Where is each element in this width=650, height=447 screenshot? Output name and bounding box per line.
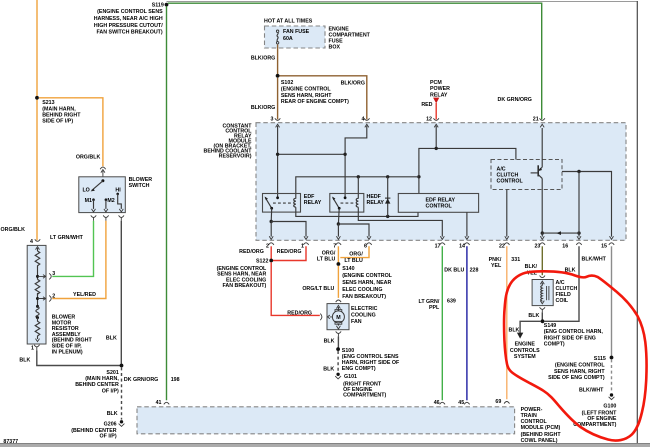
splice S122 — [217, 259, 274, 289]
svg-text:EDF: EDF — [304, 194, 315, 200]
wire ORG/LT BLU pin 6 to S140 — [340, 246, 369, 257]
EDF relay control box — [398, 194, 478, 213]
svg-text:17: 17 — [435, 244, 441, 250]
svg-text:(MAIN HARN,: (MAIN HARN, — [42, 106, 76, 112]
PCM pin 45 — [458, 400, 469, 406]
electric cooling fan label — [351, 306, 378, 325]
fan bottom connector — [336, 331, 341, 336]
svg-text:639: 639 — [447, 299, 456, 305]
ENGINE CONTROLS SYSTEM reference — [510, 342, 540, 361]
resistor pin 1 connector — [31, 345, 39, 352]
wire BLK fan to S100 — [337, 336, 339, 349]
svg-text:SENS HARN, NEAR: SENS HARN, NEAR — [342, 280, 391, 286]
svg-text:(ENGINE CONTROL: (ENGINE CONTROL — [342, 273, 392, 279]
svg-text:87377: 87377 — [3, 439, 18, 445]
svg-text:(ENGINE CONTROL: (ENGINE CONTROL — [281, 86, 331, 92]
splice S201 — [75, 364, 123, 395]
svg-text:FAN: FAN — [351, 319, 362, 325]
wire ORG/BLK left vertical from top — [36, 0, 38, 240]
ground G100 — [573, 393, 617, 428]
electric cooling fan motor M — [320, 304, 349, 330]
svg-text:S213: S213 — [42, 100, 54, 106]
wire ORG/LT BLU pin 7 to S140 — [337, 246, 339, 264]
svg-text:PCM: PCM — [430, 80, 442, 86]
wire BLK/ORG S102 to pin 3 — [277, 78, 279, 120]
svg-text:LT GRN/: LT GRN/ — [419, 299, 440, 305]
svg-text:BLK/WHT: BLK/WHT — [582, 257, 607, 263]
svg-text:6: 6 — [364, 244, 367, 250]
svg-text:TRAIN: TRAIN — [521, 413, 537, 419]
svg-text:BEHIND CENTER: BEHIND CENTER — [75, 382, 119, 388]
svg-text:(ENG CONTROL HARN,: (ENG CONTROL HARN, — [544, 329, 604, 335]
svg-text:RESERVOIR): RESERVOIR) — [219, 153, 252, 159]
label ORG/ LT BLU pin 6 — [344, 251, 363, 263]
svg-text:ELEC COOLING: ELEC COOLING — [342, 287, 382, 293]
svg-text:MODULE (PCM): MODULE (PCM) — [521, 425, 561, 431]
PCM label — [521, 407, 562, 444]
svg-text:LT BLU: LT BLU — [344, 258, 363, 264]
svg-text:COIL: COIL — [556, 298, 569, 304]
blower switch output connectors — [91, 215, 124, 220]
label DK GRN/ORG with circuit 198 — [124, 377, 180, 383]
wire BLK S201 to G206 (dashed) — [121, 367, 123, 419]
internal wire pin 3 to EDF relay — [277, 126, 279, 198]
pin 3 connector — [271, 116, 281, 127]
svg-text:198: 198 — [171, 377, 180, 383]
page top border line — [167, 1, 638, 3]
A/C clutch control output to pin 22 — [506, 190, 508, 237]
svg-text:OF I/P): OF I/P) — [100, 433, 117, 439]
CCRM bottom pin numbers — [266, 244, 607, 250]
svg-text:COMPARTMENT): COMPARTMENT) — [343, 392, 386, 398]
A/C clutch control box — [491, 160, 562, 190]
svg-text:23: 23 — [534, 244, 540, 250]
pin 4 connector — [362, 116, 370, 127]
wire BLK/ORG fuse to S102 — [277, 45, 279, 76]
blower switch connector — [100, 167, 105, 181]
svg-text:ORG/: ORG/ — [322, 250, 336, 256]
svg-text:IN PLENUM): IN PLENUM) — [52, 349, 83, 355]
CCRM bottom pin sockets — [269, 243, 615, 245]
svg-text:BLK/ORG: BLK/ORG — [251, 55, 275, 61]
wire DK GRN/ORG S119 down to PCM pin 41 — [166, 6, 168, 400]
splice S102 — [276, 74, 349, 105]
svg-text:EDF RELAY: EDF RELAY — [426, 197, 456, 203]
svg-text:SIDE OF ENG COMPT): SIDE OF ENG COMPT) — [548, 375, 605, 381]
splice S149 — [541, 319, 604, 347]
svg-text:YEL/RED: YEL/RED — [73, 292, 96, 298]
splice S119 — [152, 3, 169, 9]
svg-text:OF I/P): OF I/P) — [102, 388, 119, 394]
svg-text:SIDE OF I/P): SIDE OF I/P) — [42, 119, 73, 125]
svg-text:M2: M2 — [107, 198, 114, 204]
svg-text:ORG/: ORG/ — [349, 251, 363, 257]
wire BLK resistor pin1 to S201 — [37, 350, 122, 365]
svg-text:HARNESS, NEAR A/C HIGH: HARNESS, NEAR A/C HIGH — [94, 16, 163, 22]
svg-text:BLOWER: BLOWER — [129, 177, 153, 183]
HEDF relay coil to pin 17 — [358, 207, 442, 236]
svg-text:M1: M1 — [85, 198, 92, 204]
wire BLK S100 to G101 (dashed) — [337, 351, 339, 372]
coil bottom connector — [540, 307, 545, 312]
page right border line — [636, 1, 638, 444]
svg-text:12: 12 — [426, 116, 432, 122]
svg-text:RED/ORG: RED/ORG — [277, 249, 302, 255]
wire LT GRN/WHT switch M1 to resistor pin 3 — [52, 221, 93, 277]
label ORG/ LT BLU pin 7 — [317, 250, 336, 262]
HEDF relay switch output to pins 7 and 6 — [337, 222, 340, 225]
svg-text:21: 21 — [533, 116, 539, 122]
svg-text:RIGHT SIDE OF ENG: RIGHT SIDE OF ENG — [544, 335, 596, 341]
svg-text:POWER: POWER — [430, 86, 450, 92]
svg-text:4: 4 — [362, 116, 365, 122]
svg-text:FAN SWITCH BREAKOUT): FAN SWITCH BREAKOUT) — [96, 30, 162, 36]
constant control relay module box — [256, 123, 626, 241]
label DK BLU circuit 228 — [444, 268, 478, 274]
svg-text:BLK: BLK — [19, 357, 30, 363]
wire BLK pin 16 to S149 — [544, 246, 579, 321]
engine compartment fuse box — [265, 26, 326, 48]
svg-text:69: 69 — [495, 399, 501, 405]
svg-text:60A: 60A — [283, 36, 293, 42]
svg-text:ELECTRIC: ELECTRIC — [351, 306, 378, 312]
wire DK GRN/ORG S119 to CCRM pin 21 — [168, 3, 542, 119]
svg-text:PNK/: PNK/ — [489, 257, 502, 263]
S119 harness note — [94, 9, 163, 35]
pin 21 connector — [533, 116, 545, 127]
svg-text:G101: G101 — [344, 374, 357, 380]
svg-text:45: 45 — [458, 400, 464, 406]
svg-text:3: 3 — [271, 116, 274, 122]
svg-text:DK GRN/ORG: DK GRN/ORG — [124, 377, 158, 383]
wire RED PCM power relay to pin 12 — [435, 103, 437, 119]
svg-text:CONTROL: CONTROL — [497, 179, 524, 185]
svg-text:DK BLU: DK BLU — [444, 268, 464, 274]
ground G101 — [335, 373, 386, 399]
svg-text:22: 22 — [499, 244, 505, 250]
svg-text:LO: LO — [82, 188, 89, 194]
CCRM label — [204, 123, 253, 159]
svg-text:RED/ORG: RED/ORG — [287, 311, 312, 317]
svg-text:14: 14 — [459, 244, 465, 250]
splice S115 — [548, 356, 613, 381]
transistor Q1 — [531, 128, 543, 233]
svg-text:HOT AT ALL TIMES: HOT AT ALL TIMES — [264, 18, 313, 24]
svg-text:G206: G206 — [104, 422, 117, 428]
wire LT GRN/PPL pin 17 to PCM 46 — [441, 246, 443, 400]
svg-text:BLK: BLK — [323, 366, 334, 372]
svg-text:COOLING: COOLING — [351, 313, 376, 319]
A/C clutch field coil connector top — [540, 276, 545, 278]
svg-text:2: 2 — [266, 244, 269, 250]
svg-text:16: 16 — [562, 244, 568, 250]
blower motor resistor connector pin 4 — [30, 239, 40, 245]
wire DK BLU pin 14 to PCM 45 — [466, 246, 468, 400]
svg-text:46: 46 — [434, 400, 440, 406]
svg-text:BLK: BLK — [528, 313, 539, 319]
splice S213 — [35, 96, 81, 125]
PCM pin 69 — [495, 399, 509, 405]
HEDF relay — [330, 194, 385, 225]
svg-text:DK GRN/ORG: DK GRN/ORG — [498, 97, 532, 103]
wire BLK S149 to engine controls system — [520, 321, 541, 333]
svg-text:ENG COMPT): ENG COMPT) — [342, 366, 376, 372]
junction rail pins 3-4 — [278, 153, 346, 155]
internal wire pin 4 to HEDF relay — [345, 126, 367, 198]
svg-text:ORG/BLK: ORG/BLK — [1, 227, 26, 233]
svg-text:41: 41 — [156, 400, 162, 406]
svg-text:BLK/ORG: BLK/ORG — [341, 80, 365, 86]
svg-text:HIGH PRESSURE CUTOUT/: HIGH PRESSURE CUTOUT/ — [94, 23, 163, 29]
svg-text:BLK/ORG: BLK/ORG — [251, 105, 275, 111]
red annotation circle — [504, 271, 647, 440]
svg-text:PPL: PPL — [429, 305, 440, 311]
svg-text:FAN BREAKOUT): FAN BREAKOUT) — [222, 283, 266, 289]
svg-text:M: M — [336, 315, 341, 321]
svg-text:RELAY: RELAY — [304, 200, 322, 206]
powertrain control module box — [137, 407, 515, 434]
label BLK/ YEL — [525, 264, 538, 276]
svg-text:7: 7 — [333, 244, 336, 250]
wire ORG/BLK S213 to blower switch — [39, 98, 103, 166]
svg-text:SWITCH: SWITCH — [129, 183, 150, 189]
svg-text:ENGINE: ENGINE — [515, 342, 536, 348]
wire ORG/LT BLU S140 to cooling fan — [337, 266, 339, 298]
wire RED/ORG S122 to cooling fan — [271, 262, 320, 315]
svg-text:(ENGINE CONTROL SENS: (ENGINE CONTROL SENS — [97, 9, 163, 15]
splice S140 — [337, 262, 393, 300]
fuse FAN FUSE 60A — [276, 29, 309, 44]
svg-text:RELAY: RELAY — [430, 92, 448, 98]
svg-text:RELAY: RELAY — [367, 200, 385, 206]
fuse box label — [329, 27, 371, 51]
svg-text:S119: S119 — [152, 3, 164, 9]
svg-text:(ENG CONTROL SENS: (ENG CONTROL SENS — [342, 354, 399, 360]
diode D1 — [385, 177, 390, 217]
blower switch BLOWER SWITCH — [79, 177, 153, 213]
CCRM bottom pin arrows — [269, 236, 613, 239]
svg-text:(ENGINE CONTROL: (ENGINE CONTROL — [555, 363, 605, 369]
svg-text:RED: RED — [421, 102, 432, 108]
svg-text:CONTROL: CONTROL — [426, 204, 453, 210]
svg-text:HARN, RIGHT SIDE OF: HARN, RIGHT SIDE OF — [342, 360, 400, 366]
svg-text:SENS HARN, RIGHT: SENS HARN, RIGHT — [281, 93, 332, 99]
svg-text:S140: S140 — [342, 266, 354, 272]
svg-text:BLK/WHT: BLK/WHT — [579, 388, 604, 394]
A/C clutch field coil label — [556, 280, 578, 304]
svg-text:15: 15 — [601, 244, 607, 250]
svg-text:BLK: BLK — [106, 335, 117, 341]
wire RED/ORG pin 2 to S122 — [270, 246, 272, 260]
svg-text:SYSTEM: SYSTEM — [514, 354, 536, 360]
resistor assembly label — [52, 315, 93, 356]
svg-text:S122: S122 — [256, 259, 268, 265]
svg-text:S115: S115 — [594, 356, 606, 362]
PCM power relay symbol — [430, 80, 450, 104]
svg-text:(BEHIND RIGHT: (BEHIND RIGHT — [521, 432, 562, 438]
wire BLK/WHT S115 to G100 (dashed) — [611, 359, 613, 392]
svg-text:BLK/: BLK/ — [525, 264, 538, 270]
svg-text:FAN BREAKOUT): FAN BREAKOUT) — [342, 294, 386, 300]
splice S100 — [336, 347, 400, 372]
svg-text:4: 4 — [30, 239, 33, 245]
svg-text:BLK: BLK — [107, 411, 118, 417]
EDF relay — [263, 194, 322, 222]
svg-text:BEHIND RIGHT: BEHIND RIGHT — [42, 113, 81, 119]
svg-text:228: 228 — [470, 268, 479, 274]
svg-text:CONTROL: CONTROL — [521, 419, 548, 425]
svg-text:S201: S201 — [106, 370, 118, 376]
svg-text:BLK: BLK — [324, 338, 335, 344]
wire BLK/YEL pin 23 to clutch coil — [541, 246, 543, 275]
pin 12 connector — [426, 116, 439, 127]
svg-text:LT GRN/WHT: LT GRN/WHT — [50, 235, 84, 241]
svg-text:POWER-: POWER- — [521, 407, 543, 413]
wire BLK coil to S149 — [541, 312, 543, 321]
svg-text:3: 3 — [52, 271, 55, 277]
wire BLK/WHT pin 15 to S115 — [611, 246, 613, 357]
svg-text:331: 331 — [511, 257, 520, 263]
electric cooling fan connector top — [336, 300, 341, 302]
svg-text:FAN FUSE: FAN FUSE — [283, 29, 310, 35]
internal coil supply rail — [296, 177, 419, 194]
PCM pin 41 — [156, 400, 170, 406]
svg-text:BOX: BOX — [329, 44, 341, 50]
internal wire pin 12 branch — [436, 126, 516, 160]
svg-text:S102: S102 — [281, 80, 293, 86]
svg-text:ORG/LT BLU: ORG/LT BLU — [302, 286, 334, 292]
svg-text:LT BLU: LT BLU — [317, 257, 336, 263]
svg-text:REAR OF ENGINE COMPT): REAR OF ENGINE COMPT) — [281, 99, 349, 105]
svg-text:(MAIN HARN,: (MAIN HARN, — [85, 376, 119, 382]
svg-text:2: 2 — [52, 294, 55, 300]
svg-text:COMPT): COMPT) — [544, 342, 565, 348]
wire BLK/ORG S102 to pin 4 — [280, 76, 367, 120]
ground G206 — [71, 420, 124, 439]
internal wire transistor right to pins 16 and 15 — [562, 170, 612, 237]
emitter junction rail to pin 23 and pin 16 — [541, 231, 581, 236]
EDF relay coil to lower rail — [296, 207, 418, 216]
wire PNK/YEL pin 22 to PCM 69 — [506, 246, 508, 399]
svg-text:HEDF: HEDF — [367, 194, 382, 200]
svg-text:COWL PANEL): COWL PANEL) — [521, 438, 558, 444]
wire RED/ORG pin 1 to S122 — [273, 246, 306, 260]
svg-text:HI: HI — [115, 188, 121, 194]
wire YEL/RED switch M2 to resistor pin 2 — [52, 221, 106, 299]
svg-text:RED/ORG: RED/ORG — [239, 249, 264, 255]
svg-text:1: 1 — [31, 346, 34, 352]
label PNK/ YEL circuit 331 — [489, 257, 521, 269]
EDF relay switch output to pins 2 and 1 — [270, 220, 273, 223]
page bottom bar — [0, 444, 650, 447]
svg-text:S100: S100 — [342, 348, 354, 354]
svg-text:ORG/BLK: ORG/BLK — [76, 155, 101, 161]
A/C clutch field coil — [532, 280, 553, 306]
PCM pin 46 — [434, 400, 445, 406]
svg-text:YEL: YEL — [491, 263, 502, 269]
svg-text:BLK: BLK — [509, 328, 520, 334]
blower motor resistor assembly — [27, 245, 55, 344]
wire BLK switch HI down to S201 — [120, 221, 122, 366]
svg-text:G100: G100 — [603, 403, 616, 409]
svg-text:CONTROLS: CONTROLS — [510, 348, 540, 354]
label LT GRN/ PPL circuit 639 — [419, 299, 456, 312]
EDF relay control output to pin 14 — [466, 212, 468, 236]
